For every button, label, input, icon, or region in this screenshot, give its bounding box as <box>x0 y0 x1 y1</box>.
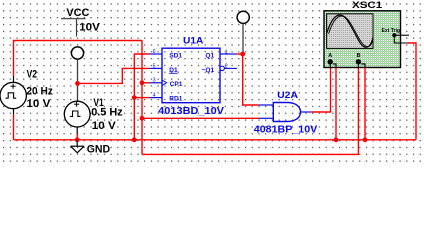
flip-flop U1A 4013BD <box>162 48 220 102</box>
ground rail wire <box>14 139 417 141</box>
wire bottom clock rail to scope B <box>142 68 358 155</box>
wire scope B- to rail <box>364 68 366 140</box>
ground GND <box>71 140 84 153</box>
junction CP1 <box>140 80 145 85</box>
ext trig terminal <box>392 33 409 43</box>
svg-text:GND: GND <box>87 143 111 155</box>
scope terminal A+ <box>328 59 333 67</box>
svg-text:4: 4 <box>153 93 156 99</box>
svg-text:~Q1: ~Q1 <box>202 67 215 74</box>
wire CP1 <box>142 82 150 84</box>
voltage source V2 (clock 20 Hz) <box>0 76 26 115</box>
scope terminal A- hook <box>333 64 336 68</box>
wire gate B input <box>142 117 259 119</box>
VCC power symbol <box>61 19 86 37</box>
svg-text:U2A: U2A <box>277 90 298 100</box>
wire gate output to scope A <box>312 68 331 113</box>
svg-text:10V: 10V <box>79 22 100 34</box>
wire scope A- to rail <box>335 68 337 140</box>
junction V1 top node <box>75 81 80 86</box>
svg-text:Ext Trig: Ext Trig <box>382 28 401 34</box>
junction B- rail <box>363 137 368 142</box>
probe P1 <box>71 47 83 102</box>
svg-text:4013BD_10V: 4013BD_10V <box>158 105 224 117</box>
svg-text:3: 3 <box>153 78 156 84</box>
U1A clock triangle <box>162 80 167 86</box>
svg-text:CP1: CP1 <box>170 81 183 88</box>
U2A input stubs <box>259 105 312 118</box>
wire D1 net from V1 <box>78 68 150 83</box>
wire V1 bottom <box>76 134 78 140</box>
junction RD1 <box>132 95 137 100</box>
svg-text:D1: D1 <box>169 67 178 74</box>
U1A pin stubs left <box>150 54 163 98</box>
svg-text:SD1: SD1 <box>169 52 182 59</box>
svg-text:1: 1 <box>225 49 228 55</box>
wire Q1 to probe node <box>236 53 243 55</box>
svg-text:10 V: 10 V <box>26 98 51 110</box>
U1A pin Q1 stub <box>220 53 236 55</box>
wire V2 bottom <box>13 115 15 140</box>
scope terminal B- hook <box>361 64 365 68</box>
svg-text:VCC: VCC <box>66 7 89 19</box>
AND gate U2A 4081BP <box>273 103 300 122</box>
svg-text:A: A <box>328 53 332 59</box>
junction A- rail <box>334 137 339 142</box>
junction gate B tap <box>140 116 145 121</box>
wire vertical clock net x=142 <box>141 41 143 155</box>
svg-text:B: B <box>357 53 361 59</box>
svg-text:RD1: RD1 <box>169 96 183 103</box>
wire V2 top to U1A column <box>14 41 143 77</box>
svg-text:XSC1: XSC1 <box>352 0 383 11</box>
wire ext trig right riser <box>408 43 416 140</box>
wire RD1 <box>134 97 149 99</box>
scope terminal B+ <box>356 59 361 67</box>
probe P2 <box>237 11 249 54</box>
svg-text:0.5 Hz: 0.5 Hz <box>91 107 123 119</box>
svg-text:20 Hz: 20 Hz <box>26 85 53 97</box>
junction Q1 node <box>240 52 245 57</box>
voltage source V1 (clock 0.5 Hz) <box>64 101 90 134</box>
svg-text:6: 6 <box>153 49 156 55</box>
U1A pin ~Q1 bubble and stub <box>220 66 237 70</box>
svg-text:10 V: 10 V <box>92 120 117 132</box>
wire Q1 node to gate A input <box>243 54 259 105</box>
svg-text:Q1: Q1 <box>205 52 214 59</box>
U1A pin name D1 <box>169 67 178 74</box>
oscilloscope XSC1 <box>324 11 401 68</box>
junction V1-rail <box>75 137 80 142</box>
svg-text:2: 2 <box>225 64 228 70</box>
svg-text:5: 5 <box>153 63 156 69</box>
svg-text:4081BP_10V: 4081BP_10V <box>254 124 317 136</box>
svg-text:U1A: U1A <box>183 36 204 46</box>
svg-text:V2: V2 <box>27 68 37 80</box>
wire SD1/RD1 tie-down vertical <box>134 54 149 140</box>
junction rail tie <box>132 137 137 142</box>
